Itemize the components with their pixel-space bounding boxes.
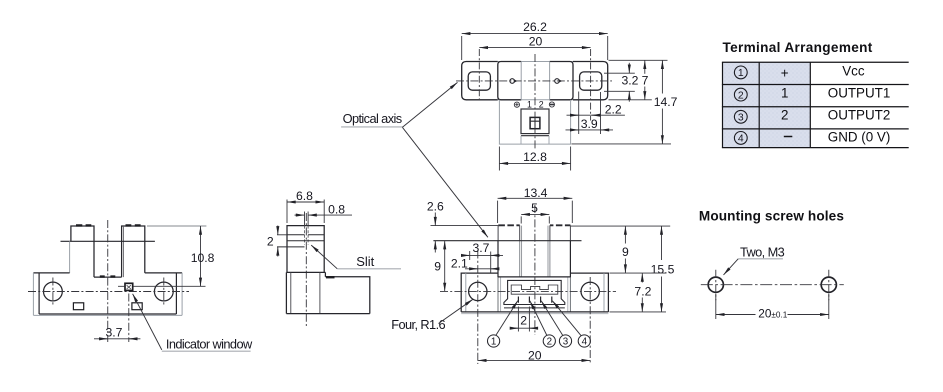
top view: left tower [498, 62, 521, 100]
bottom: center vertical centerline [534, 205, 536, 335]
svg-text:26.2: 26.2 [523, 20, 547, 34]
svg-text:3.9: 3.9 [581, 117, 598, 131]
optical axis leader to top view [402, 82, 457, 127]
bottom: right ear [571, 273, 609, 312]
table circled 4 [734, 132, 747, 145]
bottom: left ear inner line [465, 273, 467, 312]
svg-text:20±0.1: 20±0.1 [758, 307, 787, 321]
svg-text:OUTPUT1: OUTPUT1 [828, 85, 891, 100]
svg-text:3.7: 3.7 [106, 325, 123, 339]
top view: plus symbol [514, 102, 519, 107]
four R1.6 leader [439, 299, 473, 323]
dim 9 right [624, 226, 626, 243]
side: slit extension lines [305, 212, 309, 226]
dim 2 (terminals) [511, 327, 538, 329]
svg-text:Two, M3: Two, M3 [740, 244, 785, 259]
slit label underline [337, 268, 401, 270]
side: slit-depth line [287, 234, 324, 236]
dim 2 (terminals) extension lines [518, 307, 529, 332]
bottom: tower top dashes right [550, 224, 570, 226]
dim 2 (side) [277, 226, 279, 235]
dim 3.2 extension lines [604, 73, 635, 91]
svg-text:0.8: 0.8 [328, 203, 345, 217]
front: bottom gray line [33, 314, 182, 316]
side: upper block [287, 226, 324, 273]
dim 7 [644, 60, 646, 74]
bottom: tower top extension line right [571, 225, 671, 227]
svg-text:3.2: 3.2 [622, 74, 639, 88]
table circled 3 [734, 110, 747, 123]
mounting hole right [821, 277, 836, 292]
dim 9 left [444, 241, 446, 292]
front: tower top extension line [147, 225, 206, 227]
top view: right hole centerline [590, 49, 592, 121]
svg-text:+: + [781, 65, 789, 80]
svg-text:OUTPUT2: OUTPUT2 [828, 108, 891, 123]
bottom: hole horizontal centerline [440, 290, 616, 292]
front: horizontal centerline [28, 291, 189, 293]
front: hole vertical centerlines [53, 278, 164, 307]
front: wing outer gray verticals [33, 273, 182, 315]
bottom: block sides lower (gray) [498, 277, 570, 312]
svg-text:4: 4 [582, 337, 588, 348]
front: right tower inner line [123, 226, 125, 277]
bottom: left hole vertical centerline [477, 251, 479, 365]
dim 6.8 extension lines [287, 200, 324, 224]
svg-text:2: 2 [520, 314, 527, 328]
bottom: bar step line [433, 240, 581, 242]
table horizontal rules [722, 62, 909, 147]
front: slot bottom slit dashes [100, 275, 116, 277]
slit label leader [311, 245, 337, 269]
svg-text:Optical axis: Optical axis [343, 111, 402, 126]
dim 3.7 (front) [94, 338, 140, 340]
side: step line [287, 240, 324, 242]
top view: right tower [550, 62, 573, 100]
dim 6.8 [287, 201, 324, 203]
front: indicator window [125, 283, 133, 290]
svg-text:7.2: 7.2 [634, 284, 651, 298]
front: center vertical centerline [107, 220, 109, 342]
dim 7.2 [641, 273, 643, 282]
front: indicator window hatch [127, 285, 131, 289]
bottom: right hole [581, 282, 599, 300]
front: bar step line [61, 240, 155, 242]
circled terminal 1 [488, 335, 500, 348]
front: left terminal slot [73, 303, 83, 310]
dim 14.7 extension lines [572, 60, 672, 144]
leader 4 [552, 301, 581, 336]
two M3 leader [724, 259, 739, 275]
dim 26.2 [462, 33, 608, 35]
dim 3.7 extension line [469, 251, 471, 260]
svg-text:2: 2 [267, 234, 274, 248]
side: ear (right extension) [325, 277, 369, 314]
bottom: terminal recess outer [504, 280, 565, 304]
side: ear top thick mark [326, 276, 335, 278]
bottom: block sides [498, 241, 570, 278]
optical axis leader to bottom view [402, 127, 488, 237]
side: lower block top [286, 271, 325, 273]
svg-text:3: 3 [738, 113, 744, 124]
svg-text:Four, R1.6: Four, R1.6 [391, 317, 445, 332]
svg-text:Slit: Slit [356, 254, 374, 269]
side: lower block sides [286, 272, 325, 313]
top view: vertical centerline [534, 54, 536, 150]
svg-text:2.2: 2.2 [605, 102, 622, 116]
top view: terminal block [521, 109, 549, 134]
front: bottom edge [39, 313, 176, 315]
dim 12.8 extension lines [499, 147, 570, 171]
dim 2.2 extension lines [579, 92, 601, 135]
svg-text:2.6: 2.6 [427, 200, 444, 214]
bottom: tower top extension line left [431, 225, 499, 227]
dim 2.1 extension line [490, 252, 492, 273]
dim 26.2 extension lines [462, 36, 608, 60]
svg-text:5: 5 [531, 201, 538, 215]
bottom: terminal recess inner tray [511, 285, 558, 294]
svg-text:1: 1 [781, 85, 788, 100]
front: window vertical centerline [128, 294, 130, 343]
bottom: slot sides below step (gray) [520, 241, 550, 277]
side: slit hidden lines [305, 226, 309, 245]
top view: bar left ear outline [462, 62, 498, 100]
top view: horizontal centerline [456, 80, 612, 82]
svg-text:Indicator window: Indicator window [166, 337, 253, 352]
dim 12.8 [499, 162, 570, 164]
top view: right ear hole [580, 72, 602, 90]
svg-text:4: 4 [738, 134, 744, 145]
top view: optical axis marker right [555, 79, 563, 84]
indicator window label leader [133, 294, 162, 350]
bottom: block top edge [498, 276, 570, 278]
bottom: tower sides [498, 225, 570, 240]
top view: lower body (gray hidden) [499, 100, 570, 144]
svg-text:Terminal Arrangement: Terminal Arrangement [723, 40, 873, 55]
svg-text:20: 20 [529, 34, 543, 48]
indicator window label underline [162, 350, 251, 352]
bottom: left ear [461, 273, 497, 312]
svg-text:6.8: 6.8 [296, 189, 313, 203]
table circled 1 [734, 66, 747, 79]
front: wing inner dark verticals [39, 273, 176, 314]
top view: window square [530, 117, 540, 128]
bottom: slot inner double lines [522, 226, 548, 277]
top view: terminal block side stubs [521, 136, 549, 144]
dim 3.9 [566, 129, 614, 131]
dim 2.2 [567, 114, 625, 116]
dim 3.7 (bottom) [462, 254, 503, 256]
dim 2.1 [465, 268, 498, 270]
svg-text:15.5: 15.5 [651, 263, 675, 277]
circled terminal 3 [559, 335, 571, 348]
two M3 underline [738, 258, 783, 260]
mounting hole left [708, 277, 723, 292]
top view: left ear hole [468, 72, 490, 90]
svg-text:9: 9 [622, 245, 629, 259]
leader 2 [530, 301, 547, 336]
front: right tower [122, 226, 145, 277]
side: lower block inner chamfer lines [291, 272, 320, 313]
right extension lines [610, 273, 667, 312]
svg-text:9: 9 [434, 260, 441, 274]
top view: bar right ear outline [573, 62, 608, 100]
top view: left hole centerline [478, 49, 480, 99]
dim 10.8 [200, 226, 202, 286]
leader 3 [541, 301, 563, 336]
front: left tower [71, 226, 94, 277]
svg-text:Mounting screw holes: Mounting screw holes [699, 208, 844, 223]
svg-text:2: 2 [738, 90, 744, 101]
front: right terminal slot [132, 303, 142, 310]
svg-text:GND (0 V): GND (0 V) [828, 130, 891, 145]
bottom: block side inner gray lines [501, 277, 568, 311]
svg-text:2: 2 [547, 337, 552, 348]
mounting hole vertical centerlines [716, 270, 829, 300]
table circled 2 [734, 88, 747, 101]
side: center vertical centerline [305, 213, 307, 327]
front: wings top edges [33, 272, 182, 274]
circled terminal 4 [578, 335, 590, 348]
top view: minus symbol [549, 102, 554, 107]
svg-text:7: 7 [642, 74, 649, 88]
bottom: right ear inner line [603, 273, 605, 312]
bottom: base bottom gray line [461, 313, 608, 315]
bottom: right hole vertical centerline [589, 277, 591, 364]
side: lower slit line with extension [277, 246, 305, 248]
dim 5 extension lines [521, 216, 549, 223]
mounting holes horizontal centerline [701, 284, 844, 286]
dim 2.6 [434, 213, 436, 226]
svg-text:20: 20 [528, 348, 542, 362]
dim 13.4 extension lines [498, 201, 573, 223]
bottom: tower top dashes left [498, 224, 519, 226]
front: right mounting hole [154, 282, 173, 301]
side: bottom edge [286, 313, 369, 315]
leader 1 [496, 301, 518, 336]
front: block left edge (gray) [69, 241, 71, 273]
svg-text:Vcc: Vcc [842, 63, 865, 78]
front: left mounting hole [44, 282, 63, 301]
dim 13.4 [498, 197, 573, 199]
front: tower top slit dashes [76, 224, 141, 226]
svg-text:2.1: 2.1 [451, 257, 468, 271]
dim 20 [479, 47, 590, 49]
top view: terminal block lower line [521, 135, 549, 137]
svg-text:12.8: 12.8 [523, 150, 547, 164]
svg-text:10.8: 10.8 [191, 251, 215, 265]
dim 14.7 [661, 60, 663, 93]
top view: bar mid edges (gray) [498, 62, 573, 100]
optical axis label underline [341, 126, 402, 128]
svg-text:1: 1 [527, 99, 532, 109]
dim 0.8 [295, 214, 305, 216]
bottom: terminal recess lip [504, 307, 565, 309]
dim 20 (bottom) [478, 359, 590, 361]
svg-text:1: 1 [491, 337, 496, 348]
circled terminal 2 [543, 335, 555, 348]
dim 3.2 [628, 63, 630, 73]
top view: optical axis marker left [510, 79, 518, 84]
dim 5 [521, 213, 549, 215]
top view: window cross [530, 117, 540, 128]
svg-text:3.7: 3.7 [473, 241, 490, 255]
bottom: terminal pins [518, 297, 551, 303]
front: optical axis line segments [118, 285, 206, 287]
dim 15.5 [661, 226, 663, 260]
dim 20±0.1 extension lines [716, 294, 829, 320]
svg-text:14.7: 14.7 [654, 95, 678, 109]
svg-text:2: 2 [781, 108, 788, 123]
table vertical rules [723, 62, 811, 147]
svg-text:3: 3 [563, 337, 569, 348]
svg-text:2: 2 [539, 99, 544, 109]
side: slit-depth left extension [277, 234, 287, 236]
dim 20±0.1 [716, 314, 756, 316]
bottom: base bottom edge [461, 311, 608, 313]
front: slot bottom [94, 276, 122, 278]
svg-text:13.4: 13.4 [524, 186, 548, 200]
svg-text:1: 1 [738, 68, 744, 79]
bottom: left hole [469, 282, 487, 300]
table shaded columns [723, 62, 811, 147]
